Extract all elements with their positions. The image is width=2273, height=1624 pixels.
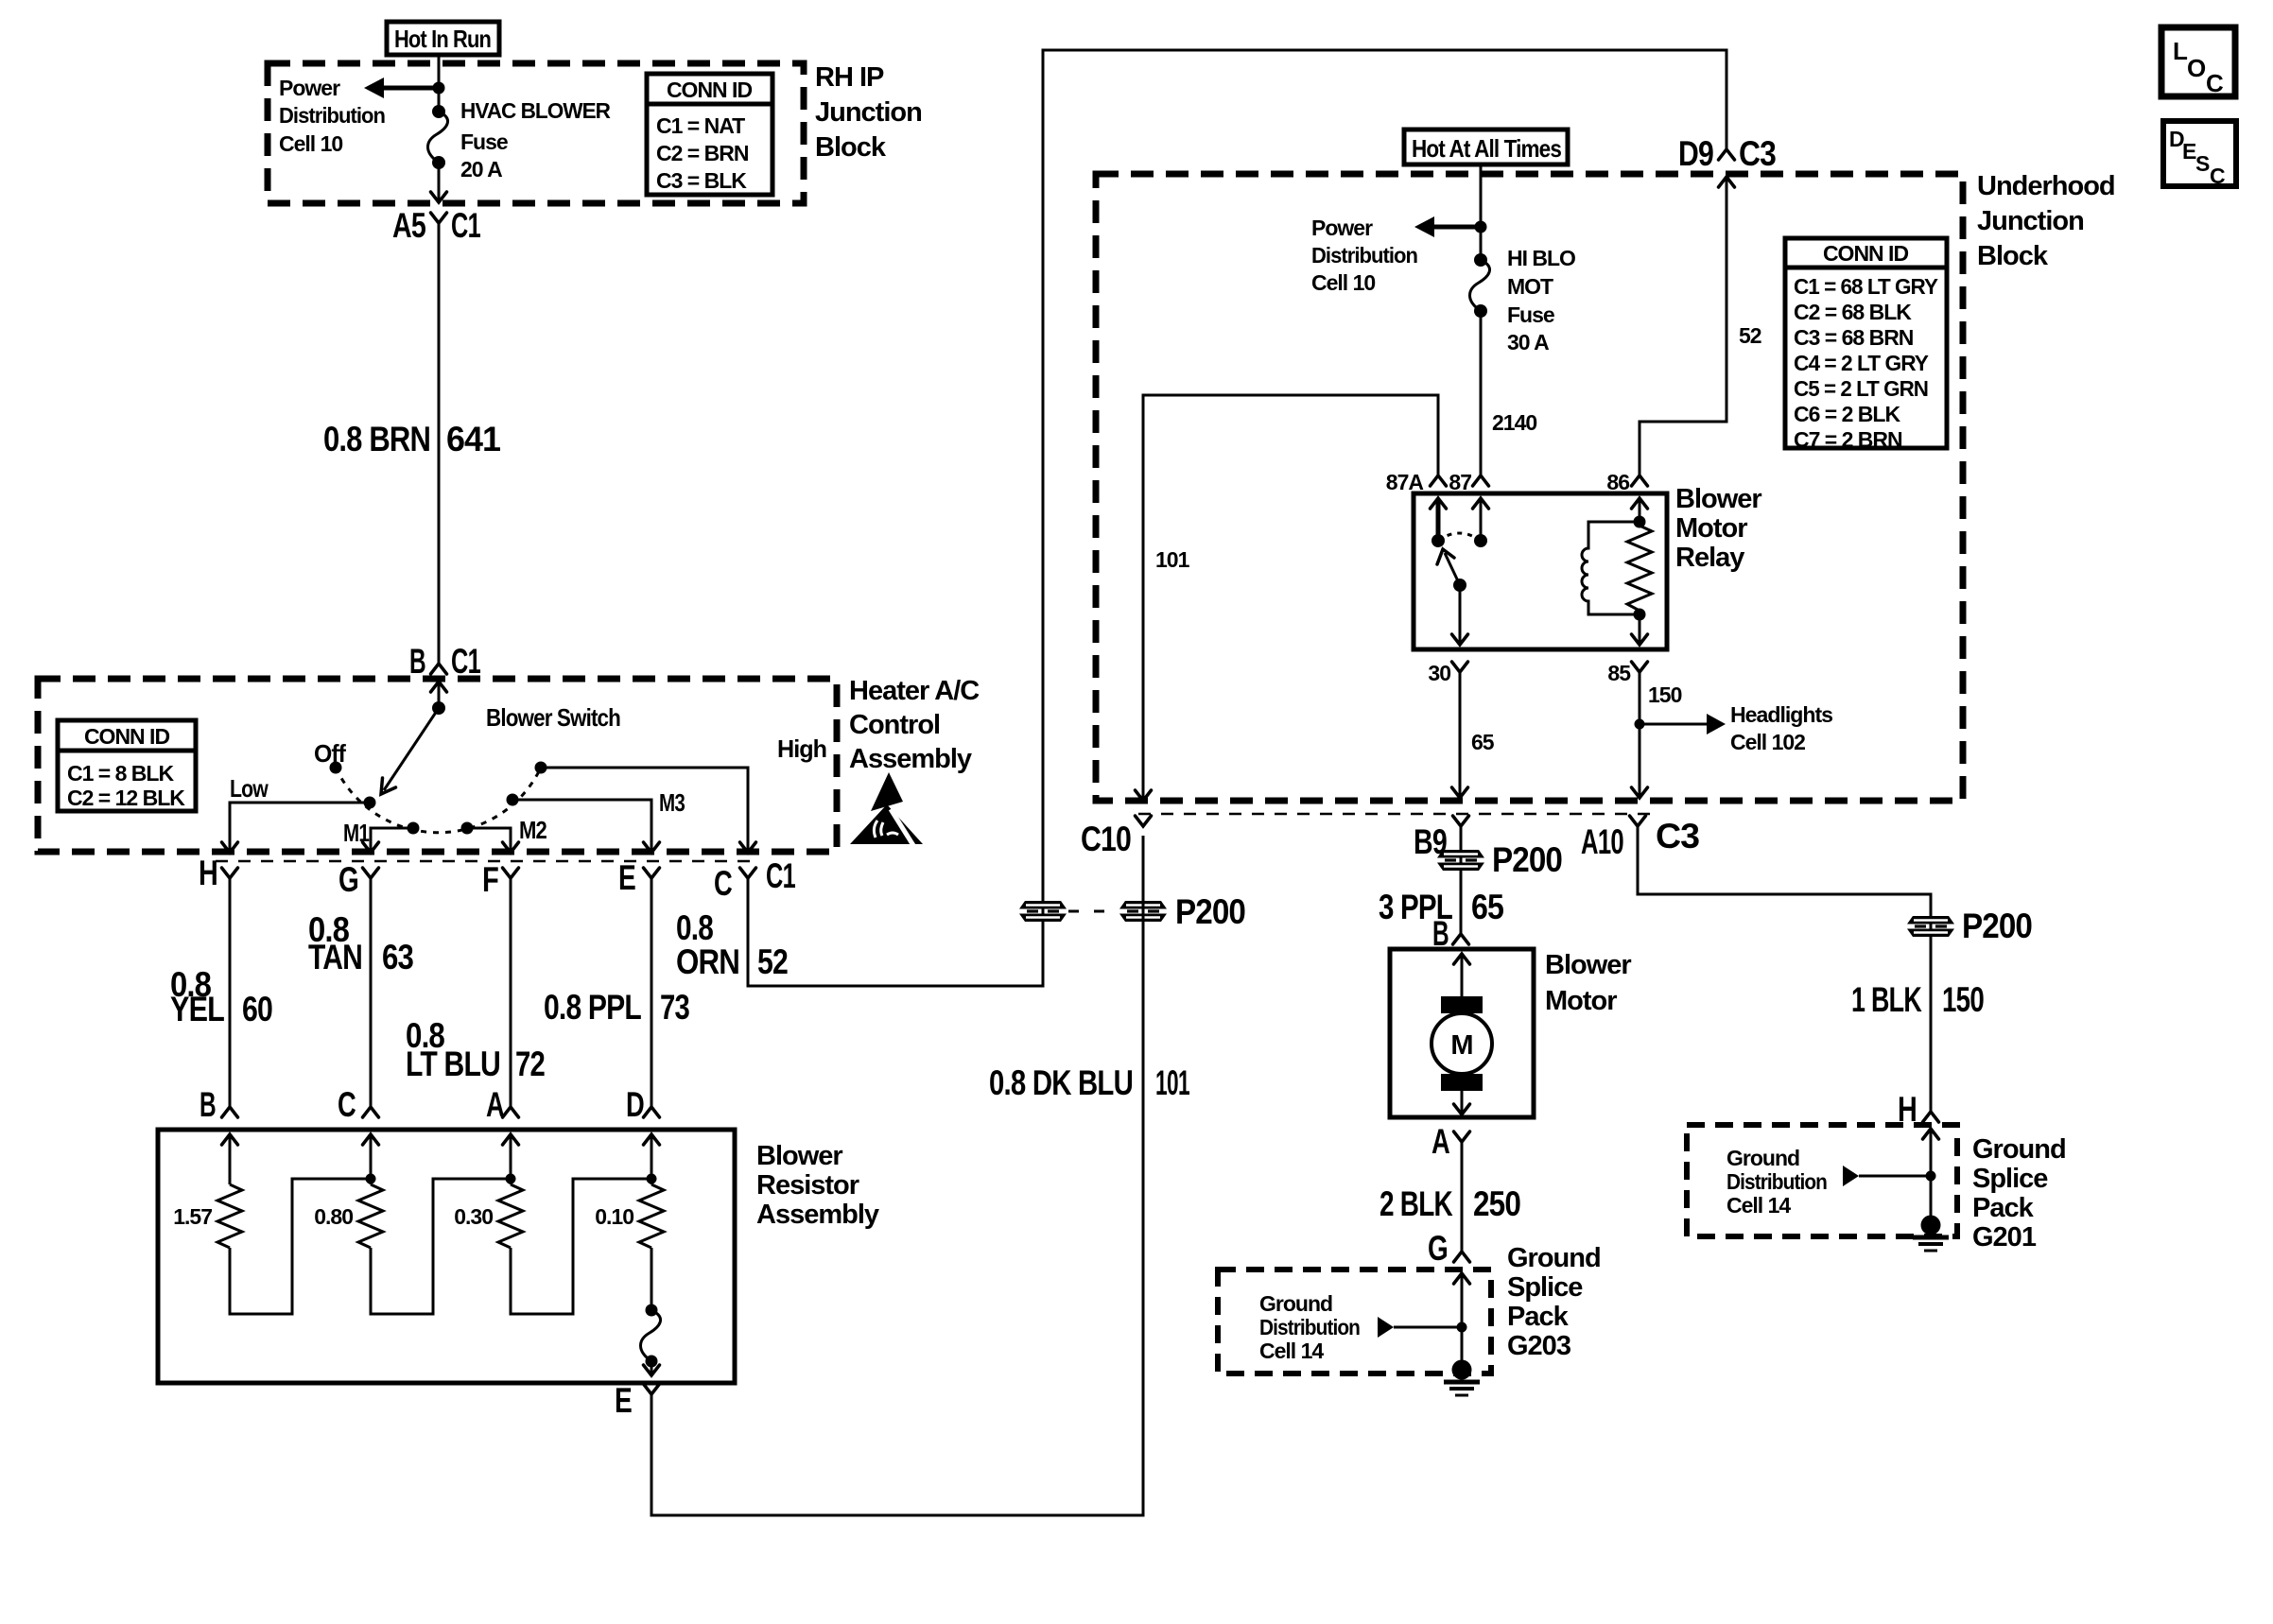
svg-text:M3: M3 bbox=[659, 788, 685, 817]
svg-text:E: E bbox=[618, 858, 635, 897]
svg-text:H: H bbox=[199, 854, 217, 892]
wire pin H to resistor pin B (0.8 YEL 60) bbox=[229, 878, 232, 1107]
relay pin 86 fork bbox=[1606, 470, 1647, 494]
svg-text:C1 = NAT: C1 = NAT bbox=[656, 113, 745, 138]
switch contact Low bbox=[230, 774, 376, 809]
svg-text:C1: C1 bbox=[766, 856, 795, 895]
svg-text:C2 = 12 BLK: C2 = 12 BLK bbox=[67, 786, 185, 810]
svg-text:101: 101 bbox=[1155, 1063, 1189, 1102]
svg-text:73: 73 bbox=[660, 988, 689, 1027]
svg-text:52: 52 bbox=[1739, 323, 1761, 348]
svg-text:250: 250 bbox=[1473, 1184, 1520, 1223]
wire pin E to resistor pin D (0.8 PPL 73) bbox=[651, 878, 653, 1107]
svg-text:D9: D9 bbox=[1678, 134, 1713, 173]
svg-text:Resistor: Resistor bbox=[756, 1170, 859, 1201]
svg-text:A: A bbox=[486, 1085, 504, 1124]
svg-text:87: 87 bbox=[1449, 470, 1471, 494]
wire into G203 splice bbox=[1454, 1273, 1470, 1365]
relay pin 87 internal contact bbox=[1473, 498, 1489, 547]
svg-text:30: 30 bbox=[1428, 661, 1450, 685]
svg-text:Assembly: Assembly bbox=[849, 744, 972, 774]
svg-text:0.8: 0.8 bbox=[676, 908, 713, 947]
svg-text:C7 = 2 BRN: C7 = 2 BRN bbox=[1794, 427, 1902, 452]
relay K1 Blower Motor Relay box bbox=[1414, 493, 1667, 649]
svg-text:Motor: Motor bbox=[1675, 513, 1747, 544]
label Blower Resistor Assembly bbox=[756, 1141, 879, 1230]
connector A10 / C3 bbox=[1581, 816, 1699, 861]
svg-text:2140: 2140 bbox=[1492, 410, 1536, 435]
svg-text:C1: C1 bbox=[451, 206, 480, 245]
switch contact Off bbox=[314, 739, 346, 774]
svg-text:Power: Power bbox=[279, 76, 340, 100]
fuse F2 HI BLO MOT 30 A bbox=[1470, 253, 1490, 318]
svg-text:P200: P200 bbox=[1492, 840, 1562, 879]
svg-text:G203: G203 bbox=[1507, 1331, 1571, 1361]
connector interface dashed line (underhood) bbox=[1138, 813, 1650, 816]
connector interface dashed line (heater control C1) bbox=[216, 860, 756, 863]
LOC reference box bbox=[2161, 27, 2235, 97]
svg-text:30 A: 30 A bbox=[1507, 330, 1549, 354]
svg-text:87A: 87A bbox=[1386, 470, 1424, 494]
DESC reference box bbox=[2163, 121, 2236, 188]
svg-text:Control: Control bbox=[849, 710, 940, 740]
svg-text:Ground: Ground bbox=[1972, 1134, 2066, 1165]
svg-text:S: S bbox=[2195, 151, 2210, 176]
svg-text:Power: Power bbox=[1311, 216, 1373, 240]
label Underhood Junction Block bbox=[1977, 171, 2115, 271]
connector B9 bbox=[1414, 816, 1469, 861]
svg-text:O: O bbox=[2187, 54, 2206, 82]
svg-text:65: 65 bbox=[1471, 730, 1495, 754]
svg-text:C: C bbox=[714, 864, 732, 903]
switch contact M3 bbox=[507, 788, 685, 817]
svg-text:Cell 14: Cell 14 bbox=[1726, 1193, 1791, 1218]
connector table CONN ID (heater control) bbox=[58, 720, 196, 811]
svg-text:Fuse: Fuse bbox=[460, 130, 508, 154]
svg-text:Off: Off bbox=[314, 739, 346, 768]
connector A5 / C1 bbox=[392, 206, 480, 245]
svg-text:Blower: Blower bbox=[1545, 950, 1631, 980]
wire fuse to relay pin 87 bbox=[1480, 311, 1483, 475]
svg-text:C3 = BLK: C3 = BLK bbox=[656, 168, 747, 193]
label HI BLO MOT Fuse 30 A bbox=[1507, 246, 1575, 354]
inline connector P200 on ground wire bbox=[1907, 907, 2032, 945]
svg-text:0.30: 0.30 bbox=[454, 1204, 493, 1229]
wire R3 bottom to pin D node bbox=[511, 1174, 657, 1315]
label 101 (underhood) bbox=[1155, 547, 1190, 572]
svg-text:HVAC BLOWER: HVAC BLOWER bbox=[460, 98, 611, 123]
svg-text:150: 150 bbox=[1648, 682, 1682, 707]
connector C10 bbox=[1081, 816, 1152, 858]
switch position arc (dashed) bbox=[336, 768, 541, 833]
Heater A/C Control Assembly dashed box bbox=[38, 679, 837, 852]
svg-text:HI BLO: HI BLO bbox=[1507, 246, 1575, 270]
svg-text:Splice: Splice bbox=[1507, 1272, 1583, 1303]
inline connector P200 on motor feed bbox=[1437, 840, 1562, 879]
label 0.8 ORN 52 bbox=[676, 908, 788, 981]
fuse F1 HVAC BLOWER 20 A bbox=[428, 105, 448, 169]
ground splice pack G201 dashed box bbox=[1687, 1125, 1957, 1236]
svg-text:G201: G201 bbox=[1972, 1222, 2037, 1253]
ground G201 bbox=[1913, 1216, 1949, 1252]
label Ground Distribution Cell 14 (G201) bbox=[1726, 1146, 1827, 1218]
svg-text:C1: C1 bbox=[451, 642, 480, 681]
label 2 BLK 250 bbox=[1379, 1184, 1520, 1223]
node headlights tap bbox=[1635, 719, 1645, 730]
wire pin F to resistor pin A (0.8 LT BLU 72) bbox=[510, 878, 512, 1107]
Blower Motor box bbox=[1390, 949, 1534, 1117]
relay coil bbox=[1582, 522, 1640, 614]
Underhood Junction Block dashed box bbox=[1096, 174, 1963, 801]
svg-text:B: B bbox=[200, 1085, 216, 1124]
connector G (ground splice) bbox=[1428, 1229, 1470, 1268]
connector pin D (resistor) bbox=[626, 1085, 660, 1124]
svg-text:85: 85 bbox=[1607, 661, 1631, 685]
svg-text:M: M bbox=[1450, 1030, 1472, 1061]
svg-text:Blower: Blower bbox=[756, 1141, 842, 1171]
svg-text:C3: C3 bbox=[1739, 134, 1776, 173]
thermal fuse in resistor assembly bbox=[641, 1248, 661, 1375]
node junction dot at power distribution tap bbox=[433, 82, 445, 95]
svg-text:1.57: 1.57 bbox=[173, 1204, 212, 1229]
connector H (ground splice) bbox=[1898, 1090, 1939, 1129]
connector pin C (resistor) bbox=[338, 1085, 379, 1124]
label 65 (underhood) bbox=[1471, 730, 1495, 754]
relay pin 87A internal contact bbox=[1431, 498, 1447, 547]
Hot At All Times label box bbox=[1404, 130, 1568, 164]
label RH IP Junction Block bbox=[815, 62, 922, 163]
svg-text:60: 60 bbox=[242, 990, 272, 1028]
svg-text:Blower Switch: Blower Switch bbox=[486, 703, 620, 732]
wire High contact to pin C bbox=[541, 768, 756, 853]
svg-text:101: 101 bbox=[1155, 547, 1190, 572]
wire pin C to underhood block (0.8 ORN 52) bbox=[748, 50, 1726, 986]
svg-text:0.8 DK BLU: 0.8 DK BLU bbox=[989, 1063, 1133, 1102]
relay pin 87A fork bbox=[1386, 470, 1447, 494]
svg-text:Ground: Ground bbox=[1726, 1146, 1799, 1170]
wire 101 from C10 up and over to relay pin 87A bbox=[1136, 395, 1439, 801]
wire arrow to Headlights Cell 102 bbox=[1640, 714, 1726, 734]
wire M3 contact to pin E bbox=[512, 800, 660, 853]
svg-text:Low: Low bbox=[230, 774, 269, 803]
wire resistor pin E to C10 (0.8 DK BLU 101) bbox=[651, 836, 1143, 1515]
svg-text:M2: M2 bbox=[519, 816, 547, 844]
svg-text:Splice: Splice bbox=[1972, 1164, 2048, 1194]
inline connector P200 pass-through pair bbox=[1019, 892, 1245, 931]
svg-text:C4 = 2 LT GRY: C4 = 2 LT GRY bbox=[1794, 351, 1929, 375]
svg-text:Fuse: Fuse bbox=[1507, 302, 1554, 327]
svg-text:Underhood: Underhood bbox=[1977, 171, 2115, 201]
relay coil suppression resistor bbox=[1627, 516, 1652, 621]
svg-text:F: F bbox=[482, 860, 498, 899]
blower motor M1 symbol bbox=[1431, 954, 1492, 1114]
svg-text:Distribution: Distribution bbox=[279, 103, 385, 128]
svg-text:L: L bbox=[2173, 37, 2188, 65]
wire M2 contact to pin F bbox=[467, 828, 519, 853]
svg-text:YEL: YEL bbox=[170, 990, 224, 1028]
wire into G201 splice bbox=[1923, 1129, 1939, 1220]
ground splice pack G203 dashed box bbox=[1218, 1270, 1491, 1373]
blower switch feed arrow into box bbox=[431, 682, 447, 708]
label 150 (underhood) bbox=[1648, 682, 1682, 707]
connector pin B (resistor) bbox=[200, 1085, 238, 1124]
svg-text:P200: P200 bbox=[1175, 892, 1245, 931]
svg-text:Motor: Motor bbox=[1545, 986, 1617, 1016]
svg-text:52: 52 bbox=[757, 942, 788, 981]
pin A entry arrow bbox=[503, 1134, 519, 1184]
wire B9 to blower motor pin B bbox=[1460, 826, 1463, 934]
svg-text:Relay: Relay bbox=[1675, 543, 1744, 573]
svg-text:C1 = 68 LT GRY: C1 = 68 LT GRY bbox=[1794, 274, 1938, 299]
svg-text:C10: C10 bbox=[1081, 820, 1131, 858]
svg-text:Pack: Pack bbox=[1507, 1302, 1570, 1332]
svg-text:641: 641 bbox=[446, 420, 500, 458]
label 52 (underhood) bbox=[1739, 323, 1761, 348]
svg-text:C3: C3 bbox=[1656, 817, 1699, 855]
svg-text:A5: A5 bbox=[392, 206, 425, 245]
wire R1 bottom to pin C node bbox=[230, 1174, 376, 1315]
wire relay pin 30 to B9 (65) bbox=[1452, 672, 1468, 798]
ground G203 bbox=[1444, 1360, 1480, 1396]
relay pin 85 fork bbox=[1607, 661, 1647, 685]
connector pin E (resistor output) bbox=[615, 1381, 660, 1420]
svg-text:D: D bbox=[626, 1085, 644, 1124]
svg-text:C1 = 8 BLK: C1 = 8 BLK bbox=[67, 761, 174, 786]
label Ground Splice Pack G201 bbox=[1972, 1134, 2066, 1253]
svg-text:ORN: ORN bbox=[676, 942, 739, 981]
wire fuse to box edge with arrow bbox=[431, 163, 447, 202]
svg-text:Assembly: Assembly bbox=[756, 1200, 879, 1230]
label Headlights Cell 102 bbox=[1730, 702, 1832, 754]
svg-text:0.8 PPL: 0.8 PPL bbox=[544, 988, 641, 1027]
svg-text:Cell 102: Cell 102 bbox=[1730, 730, 1805, 754]
svg-text:P200: P200 bbox=[1962, 907, 2032, 945]
label 0.8 LT BLU 72 bbox=[406, 1016, 545, 1083]
wire arrow to Power Distribution Cell 10 (underhood) bbox=[1414, 216, 1481, 237]
svg-text:CONN ID: CONN ID bbox=[84, 724, 170, 749]
wire R2 bottom to pin A node bbox=[371, 1174, 516, 1315]
svg-text:B: B bbox=[409, 642, 425, 681]
svg-text:Block: Block bbox=[815, 132, 887, 163]
svg-text:86: 86 bbox=[1606, 470, 1629, 494]
label HVAC BLOWER Fuse 20 A bbox=[460, 98, 611, 181]
wire arrow to Power Distribution Cell 10 bbox=[364, 78, 439, 98]
svg-text:RH IP: RH IP bbox=[815, 62, 884, 93]
svg-text:M1: M1 bbox=[343, 819, 369, 847]
svg-text:Cell 10: Cell 10 bbox=[279, 131, 342, 156]
svg-text:C: C bbox=[2206, 69, 2224, 97]
svg-text:MOT: MOT bbox=[1507, 274, 1553, 299]
wire from Hot In Run down into junction block bbox=[438, 55, 441, 112]
switch contact High bbox=[535, 734, 827, 774]
svg-text:High: High bbox=[777, 734, 826, 763]
svg-text:Distribution: Distribution bbox=[1311, 243, 1417, 268]
label Power Distribution Cell 10 (underhood) bbox=[1311, 216, 1417, 295]
relay movable contact blade bbox=[1437, 549, 1466, 592]
label Ground Splice Pack G203 bbox=[1507, 1243, 1601, 1361]
svg-text:Block: Block bbox=[1977, 241, 2049, 271]
wire pin G to resistor pin C (0.8 TAN 63) bbox=[370, 878, 373, 1107]
svg-text:CONN ID: CONN ID bbox=[667, 78, 753, 102]
label Heater A/C Control Assembly bbox=[849, 676, 980, 774]
connector pin H bbox=[199, 854, 238, 892]
connector pin A (resistor) bbox=[486, 1085, 519, 1124]
svg-text:Hot In Run: Hot In Run bbox=[394, 25, 491, 53]
svg-text:0.80: 0.80 bbox=[314, 1204, 353, 1229]
svg-text:C2 = 68 BLK: C2 = 68 BLK bbox=[1794, 300, 1912, 324]
ground distribution feed arrow (G201) bbox=[1843, 1166, 1936, 1186]
connector pin F bbox=[482, 860, 519, 899]
label 2140 bbox=[1492, 410, 1536, 435]
svg-text:Ground: Ground bbox=[1259, 1291, 1332, 1316]
svg-text:A10: A10 bbox=[1581, 822, 1623, 861]
ESD sensitive device symbol bbox=[850, 772, 923, 847]
pin D entry arrow bbox=[644, 1134, 660, 1184]
label 0.8 PPL 73 bbox=[544, 988, 689, 1027]
relay contact dashed arc bbox=[1438, 533, 1481, 541]
svg-text:Distribution: Distribution bbox=[1726, 1169, 1827, 1194]
svg-text:A: A bbox=[1431, 1122, 1449, 1161]
relay pin 87 fork bbox=[1449, 470, 1488, 494]
label Blower Motor bbox=[1545, 950, 1631, 1016]
svg-text:C: C bbox=[2210, 164, 2225, 188]
wire motor pin A to G203 (2 BLK 250) bbox=[1461, 1142, 1464, 1252]
pin C entry arrow bbox=[363, 1134, 379, 1184]
svg-text:0.8 BRN: 0.8 BRN bbox=[323, 420, 430, 458]
resistor R2 0.80 ohm bbox=[314, 1184, 383, 1248]
wire Hot At All Times into block bbox=[1480, 164, 1483, 260]
svg-text:Junction: Junction bbox=[1977, 206, 2084, 236]
connector pin A (blower motor) bbox=[1431, 1122, 1470, 1161]
svg-text:G: G bbox=[338, 860, 358, 899]
svg-text:E: E bbox=[615, 1381, 632, 1420]
svg-text:C6 = 2 BLK: C6 = 2 BLK bbox=[1794, 402, 1900, 426]
label 0.8 YEL 60 bbox=[170, 965, 272, 1028]
svg-text:1 BLK: 1 BLK bbox=[1851, 980, 1922, 1019]
connector pin B (blower motor) bbox=[1432, 914, 1469, 953]
RH IP Junction Block dashed box bbox=[268, 63, 804, 203]
svg-text:E: E bbox=[2182, 139, 2196, 164]
svg-text:Ground: Ground bbox=[1507, 1243, 1601, 1273]
svg-text:TAN: TAN bbox=[308, 938, 362, 976]
svg-text:20 A: 20 A bbox=[460, 157, 502, 181]
svg-text:65: 65 bbox=[1471, 888, 1503, 926]
connector table CONN ID (underhood) bbox=[1785, 238, 1947, 452]
label Blower Switch bbox=[486, 703, 620, 732]
svg-text:Hot At All Times: Hot At All Times bbox=[1412, 134, 1561, 163]
svg-text:C5 = 2 LT GRN: C5 = 2 LT GRN bbox=[1794, 376, 1928, 401]
relay common wire to pin 30 bbox=[1452, 585, 1468, 645]
switch contact M1 bbox=[343, 819, 420, 847]
connector pin E bbox=[618, 858, 660, 897]
wire relay pin 85 to A10 (150) bbox=[1632, 672, 1648, 798]
wire A10/C3 to G201 (1 BLK 150) bbox=[1638, 826, 1931, 1112]
pin B entry arrow bbox=[222, 1134, 238, 1184]
label Blower Motor Relay bbox=[1675, 484, 1761, 573]
switch contact M2 bbox=[461, 816, 547, 844]
svg-text:Cell 14: Cell 14 bbox=[1259, 1339, 1324, 1363]
connector B / C1 (heater control) bbox=[409, 642, 480, 681]
resistor R4 0.10 ohm bbox=[595, 1184, 664, 1248]
label 1 BLK 150 bbox=[1851, 980, 1984, 1019]
svg-text:63: 63 bbox=[382, 938, 413, 976]
svg-text:CONN ID: CONN ID bbox=[1823, 241, 1909, 266]
ground distribution feed arrow (G203) bbox=[1378, 1317, 1467, 1338]
svg-text:Junction: Junction bbox=[815, 97, 922, 128]
Hot In Run label box bbox=[387, 22, 499, 55]
relay pin 86 internal arrow bbox=[1632, 498, 1648, 522]
svg-text:150: 150 bbox=[1942, 980, 1984, 1019]
svg-text:Headlights: Headlights bbox=[1730, 702, 1832, 727]
connector table CONN ID (RH IP) bbox=[647, 74, 772, 195]
svg-text:Heater A/C: Heater A/C bbox=[849, 676, 980, 706]
resistor R1 1.57 ohm bbox=[173, 1184, 242, 1248]
wire M1 contact to pin G bbox=[363, 828, 414, 853]
svg-text:Blower: Blower bbox=[1675, 484, 1761, 514]
connector D9 / C3 bbox=[1678, 134, 1776, 173]
svg-text:C2 = BRN: C2 = BRN bbox=[656, 141, 749, 165]
svg-text:Pack: Pack bbox=[1972, 1193, 2035, 1223]
wire D9/C3 to relay pin 86 (52) bbox=[1640, 177, 1735, 475]
wire Low contact to pin H bbox=[222, 803, 371, 853]
relay pin 85 internal wire bbox=[1632, 614, 1648, 645]
label Power Distribution Cell 10 bbox=[279, 76, 385, 156]
svg-text:G: G bbox=[1428, 1229, 1448, 1268]
svg-text:LT BLU: LT BLU bbox=[406, 1045, 500, 1083]
label 0.8 DK BLU 101 bbox=[989, 1063, 1189, 1102]
blower switch pivot node bbox=[432, 701, 445, 715]
blower switch blade (wiper arm) bbox=[381, 708, 439, 794]
svg-text:72: 72 bbox=[515, 1045, 545, 1083]
relay pin 30 fork bbox=[1428, 661, 1467, 685]
label 0.8 BRN 641 bbox=[323, 420, 500, 458]
svg-text:Cell 10: Cell 10 bbox=[1311, 270, 1375, 295]
svg-text:0.10: 0.10 bbox=[595, 1204, 633, 1229]
svg-text:C3 = 68 BRN: C3 = 68 BRN bbox=[1794, 325, 1914, 350]
svg-text:C: C bbox=[338, 1085, 356, 1124]
wire 0.8 BRN 641 bbox=[438, 223, 441, 664]
Blower Resistor Assembly box bbox=[158, 1130, 735, 1383]
svg-text:Distribution: Distribution bbox=[1259, 1315, 1360, 1339]
label 3 PPL 65 bbox=[1379, 888, 1503, 926]
node power tap dot bbox=[1475, 221, 1487, 233]
svg-text:2 BLK: 2 BLK bbox=[1379, 1184, 1453, 1223]
label Ground Distribution Cell 14 (G203) bbox=[1259, 1291, 1360, 1363]
resistor R3 0.30 ohm bbox=[454, 1184, 523, 1248]
connector pin C / C1 bbox=[714, 856, 795, 903]
label 0.8 TAN 63 bbox=[308, 910, 413, 976]
connector pin G bbox=[338, 860, 379, 899]
